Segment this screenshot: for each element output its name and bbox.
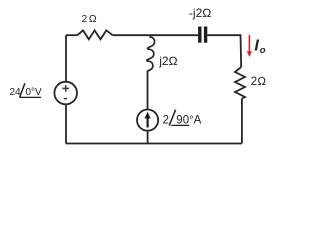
resistor R 2ohm (right) zigzag xyxy=(235,67,245,99)
current arrow Io (red) xyxy=(248,35,250,52)
svg-text:I: I xyxy=(254,38,259,55)
wire: top right horizontal xyxy=(207,34,240,36)
svg-text:o: o xyxy=(260,45,266,56)
svg-text:2: 2 xyxy=(163,115,169,127)
angle slash of 2/90 A xyxy=(169,110,175,126)
wire: right vertical lower lead xyxy=(241,99,243,144)
wire: bottom horizontal xyxy=(66,143,242,145)
inductor L j2ohm coil xyxy=(147,35,155,72)
capacitor C -j2ohm plates xyxy=(198,27,201,43)
angle underline of 24/0 V xyxy=(20,96,41,98)
svg-text:j2Ω: j2Ω xyxy=(158,54,178,68)
wire: below current source xyxy=(147,131,149,144)
resistor R 2ohm (top) zigzag xyxy=(77,30,112,39)
voltage source minus sign xyxy=(64,98,67,100)
wire: top-left horizontal lead xyxy=(66,34,77,36)
wire: left vertical lower xyxy=(65,104,67,143)
wire: middle vertical between inductor and current source xyxy=(147,71,149,110)
angle slash of 24/0 V xyxy=(20,83,25,97)
voltage source plus sign xyxy=(62,85,69,92)
current source arrow (up) xyxy=(147,117,149,128)
wire: right vertical upper lead xyxy=(240,34,243,67)
svg-text:2Ω: 2Ω xyxy=(251,76,266,88)
svg-text:2Ω: 2Ω xyxy=(81,14,98,25)
wire: top middle horizontal xyxy=(113,34,199,36)
wire: left vertical upper xyxy=(65,35,67,82)
svg-text:-j2Ω: -j2Ω xyxy=(189,6,212,20)
voltage source V1 24/0 V circle xyxy=(54,82,77,105)
svg-text:0°V: 0°V xyxy=(26,87,43,98)
current source I1 2/90 A circle xyxy=(137,110,158,131)
angle underline of 2/90 A xyxy=(171,124,189,126)
